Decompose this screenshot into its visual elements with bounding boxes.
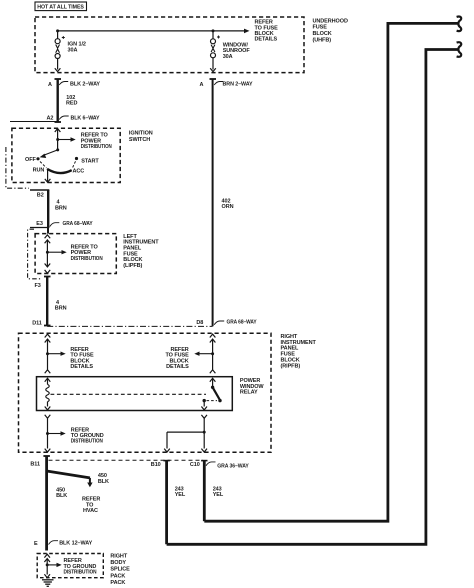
svg-text:IGNITION: IGNITION — [129, 131, 153, 137]
svg-text:DETAILS: DETAILS — [70, 364, 93, 370]
svg-text:BLK: BLK — [56, 493, 67, 499]
svg-text:E3: E3 — [36, 221, 43, 227]
svg-text:D8: D8 — [196, 320, 203, 326]
svg-text:BRN: BRN — [55, 205, 67, 211]
svg-text:PACK: PACK — [110, 573, 125, 579]
svg-text:(UHFB): (UHFB) — [313, 38, 332, 44]
svg-text:30A: 30A — [68, 48, 78, 54]
svg-text:RELAY: RELAY — [240, 390, 258, 396]
svg-text:GRA 68–WAY: GRA 68–WAY — [227, 320, 257, 326]
svg-text:B11: B11 — [30, 461, 40, 467]
svg-text:BLK 6–WAY: BLK 6–WAY — [71, 116, 100, 122]
svg-text:BLK 12–WAY: BLK 12–WAY — [59, 541, 92, 547]
svg-text:C10: C10 — [190, 462, 200, 468]
svg-text:30A: 30A — [223, 54, 233, 60]
svg-text:FUSE: FUSE — [313, 25, 328, 31]
svg-text:GRA 36–WAY: GRA 36–WAY — [217, 464, 249, 470]
svg-text:(LIPFB): (LIPFB) — [123, 263, 142, 269]
svg-text:DISTRIBUTION: DISTRIBUTION — [71, 256, 103, 262]
svg-text:ORN: ORN — [222, 204, 234, 210]
svg-text:A: A — [48, 82, 52, 88]
svg-text:OFF: OFF — [25, 157, 36, 163]
svg-text:HOT AT ALL TIMES: HOT AT ALL TIMES — [37, 4, 84, 10]
svg-text:B2: B2 — [37, 192, 44, 198]
svg-text:GRA 68–WAY: GRA 68–WAY — [63, 221, 93, 227]
svg-text:DISTRIBUTION: DISTRIBUTION — [64, 570, 97, 576]
svg-text:A: A — [200, 82, 204, 88]
svg-text:B10: B10 — [151, 462, 161, 468]
svg-text:A2: A2 — [47, 116, 54, 122]
svg-text:RED: RED — [66, 101, 77, 107]
svg-text:RUN: RUN — [33, 168, 45, 174]
svg-text:D11: D11 — [32, 321, 42, 327]
svg-text:(RIPFB): (RIPFB) — [281, 363, 301, 369]
svg-text:BRN 2–WAY: BRN 2–WAY — [223, 82, 253, 88]
svg-text:DISTRIBUTION: DISTRIBUTION — [71, 439, 103, 445]
svg-text:DETAILS: DETAILS — [255, 37, 278, 43]
svg-text:UNDERHOOD: UNDERHOOD — [313, 18, 348, 24]
svg-text:SPLICE: SPLICE — [110, 567, 130, 573]
svg-text:PACK: PACK — [110, 580, 125, 586]
svg-text:HVAC: HVAC — [83, 508, 98, 514]
svg-text:BLK 2–WAY: BLK 2–WAY — [70, 82, 100, 88]
svg-text:DETAILS: DETAILS — [166, 364, 189, 370]
svg-text:YEL: YEL — [175, 492, 186, 498]
svg-text:START: START — [81, 158, 99, 164]
svg-text:YEL: YEL — [213, 492, 224, 498]
svg-text:BLOCK: BLOCK — [313, 31, 332, 37]
svg-text:E: E — [34, 541, 38, 547]
svg-text:RIGHT: RIGHT — [110, 554, 127, 560]
svg-text:BRN: BRN — [55, 306, 67, 312]
svg-text:DISTRIBUTION: DISTRIBUTION — [81, 144, 112, 150]
svg-text:ACC: ACC — [73, 169, 85, 175]
svg-text:F3: F3 — [35, 283, 41, 289]
svg-text:SWITCH: SWITCH — [129, 137, 150, 143]
svg-text:BLK: BLK — [98, 479, 109, 485]
svg-text:BODY: BODY — [110, 560, 126, 566]
